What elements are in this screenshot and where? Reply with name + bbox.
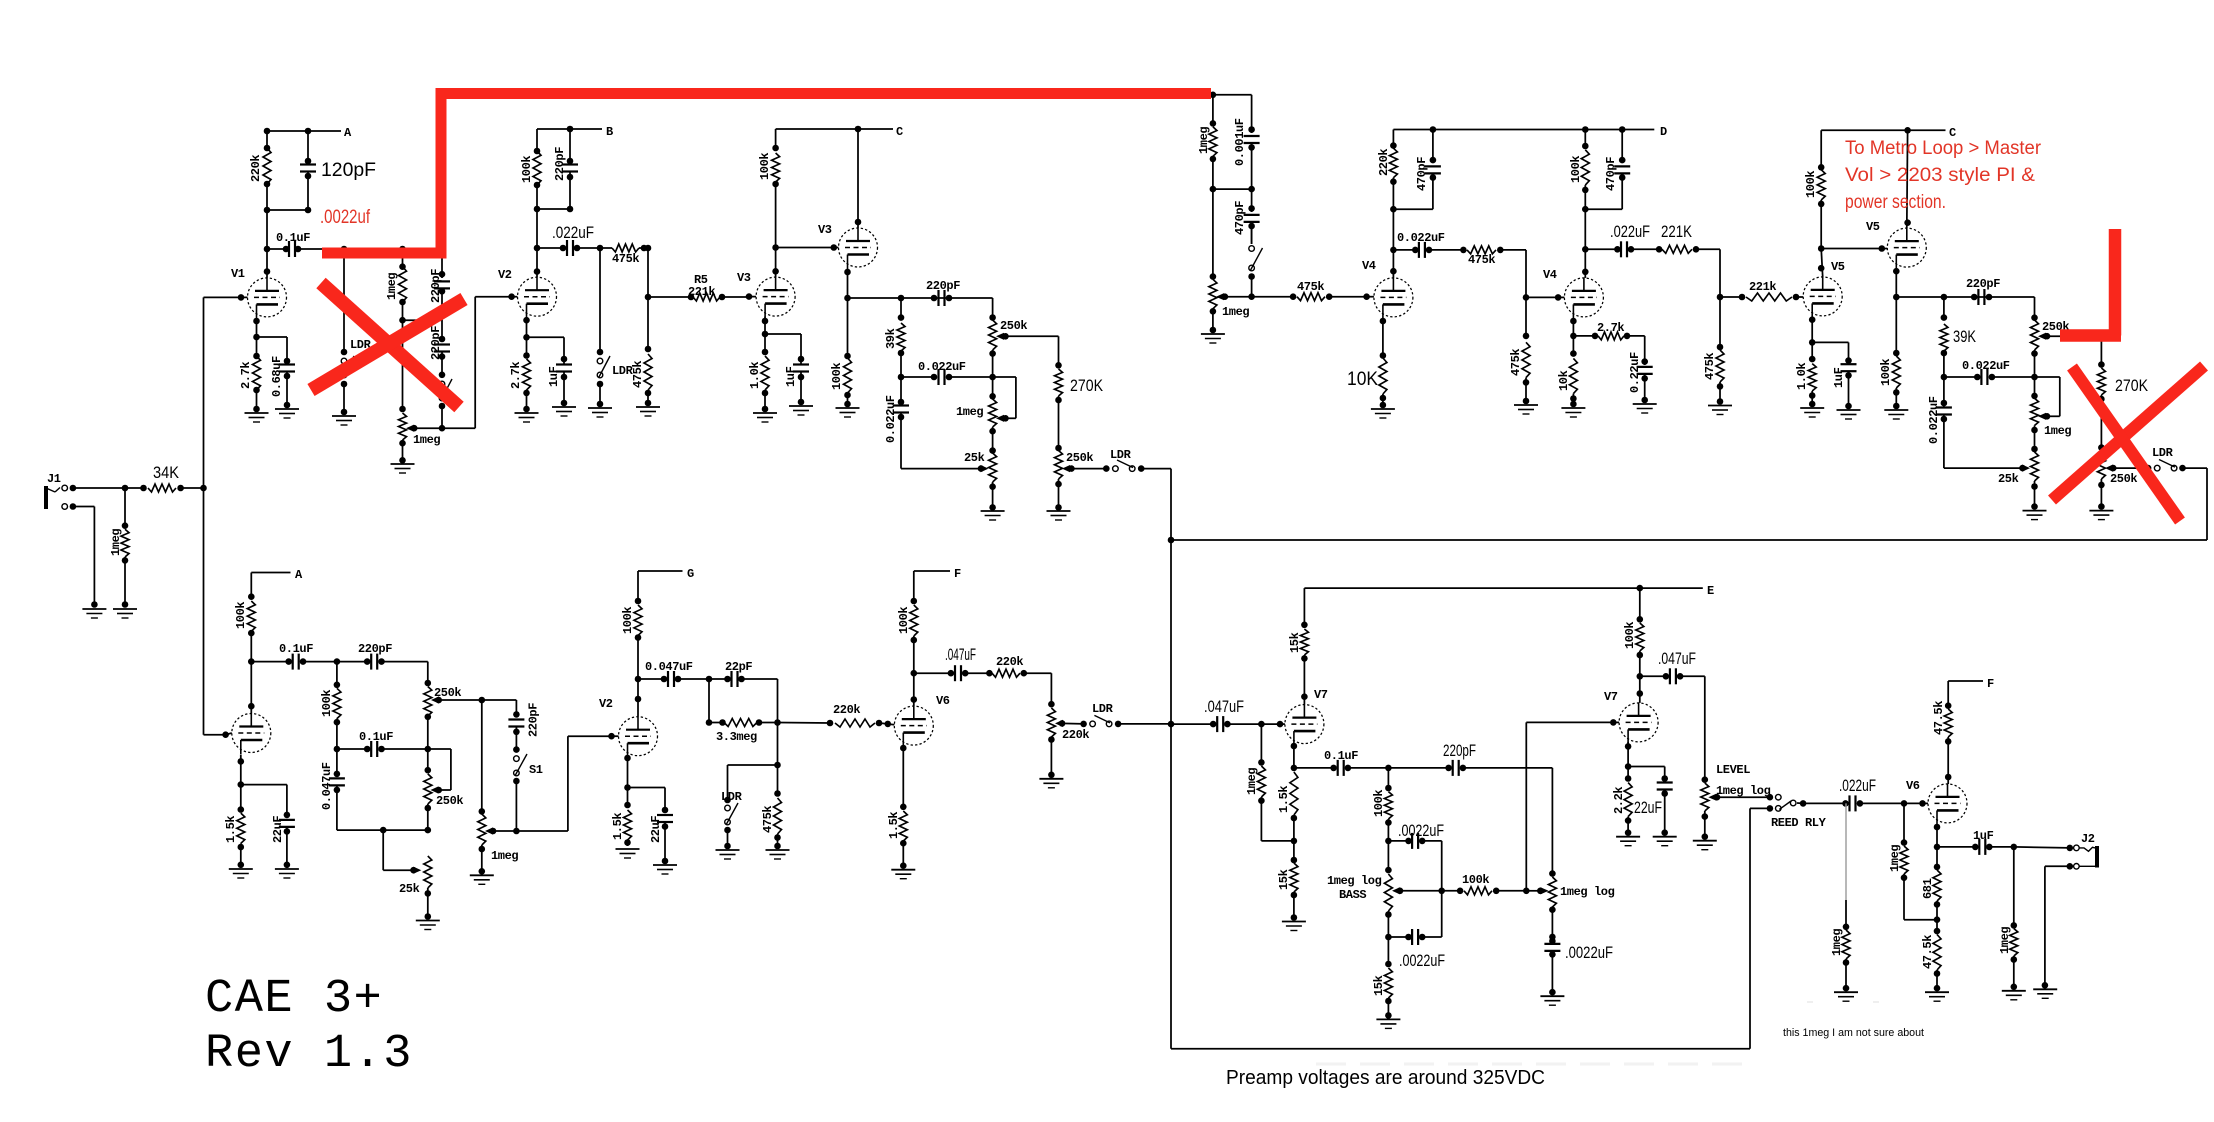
note this 1meg: [1783, 1027, 1924, 1039]
wire V4b cathode: [1570, 318, 1577, 340]
capacitor 220pF (lower A): [337, 642, 428, 670]
resistor 47.5k (V6b plate): [1932, 681, 1952, 784]
ground 0.22uF: [1633, 404, 1657, 413]
resistor 2.7k (V1 cathode): [239, 337, 261, 412]
capacitor 220pF (S1): [508, 703, 540, 753]
wire V2 plate lead: [534, 248, 541, 277]
wire B row: [534, 206, 574, 213]
svg-text:221k: 221k: [1749, 280, 1776, 294]
triode V5 (lower): [1803, 260, 1845, 317]
potentiometer 1meg log BASS: [1327, 841, 1403, 940]
svg-text:25k: 25k: [399, 882, 420, 896]
svg-text:1.0k: 1.0k: [748, 362, 762, 389]
ground 1.5k lower A: [229, 869, 253, 878]
svg-text:REED RLY: REED RLY: [1771, 816, 1827, 830]
svg-text:470pF: 470pF: [1233, 201, 1247, 235]
svg-text:1.5k: 1.5k: [887, 812, 901, 839]
resistor 39K (tone2): [1940, 297, 1977, 380]
wire 220k to V6 grid: [888, 723, 895, 726]
wire fx to 475k: [1225, 293, 1296, 300]
resistor 475k (V5 grid shunt): [1703, 297, 1724, 405]
svg-text:D: D: [1660, 125, 1667, 139]
capacitor 0.047uF (G out): [638, 660, 712, 687]
resistor 220k (to V6L): [778, 703, 892, 727]
resistor 10K (V4a cathode): [1347, 358, 1387, 408]
ground V7 cathode: [1282, 922, 1306, 931]
resistor 1.5k (V6L cathode): [887, 811, 907, 869]
svg-text:100k: 100k: [234, 602, 248, 629]
junction dots node A: [264, 128, 312, 135]
potentiometer 250k (tone1 upper): [989, 319, 1028, 380]
ground V6b cathode: [1925, 992, 1949, 1001]
ground 10K: [1371, 409, 1395, 418]
potentiometer 25k (tone2): [1998, 452, 2039, 510]
wire bass wiper: [1400, 890, 1442, 892]
capacitor .0022uF (treble): [1544, 938, 1613, 996]
svg-text:10K: 10K: [1347, 369, 1378, 390]
svg-text:0.022uF: 0.022uF: [1927, 396, 1941, 444]
red label .0022uf: [320, 207, 371, 228]
svg-text:J2: J2: [2081, 832, 2095, 846]
resistor 475k (G shunt): [761, 765, 782, 849]
wire 0.047 junction down: [706, 679, 713, 726]
resistor 220k (F series): [992, 655, 1051, 677]
svg-text:V5: V5: [1831, 260, 1845, 274]
wire V6L plate: [911, 673, 918, 706]
svg-text:V3: V3: [737, 271, 751, 285]
triode V2: [498, 268, 557, 318]
svg-text:0.1uF: 0.1uF: [276, 231, 310, 245]
wire lower tube plate: [248, 662, 255, 714]
svg-text:1.5k: 1.5k: [1277, 786, 1291, 813]
resistor 100k (V3 follower): [830, 298, 852, 407]
svg-text:475k: 475k: [1703, 353, 1717, 380]
capacitor 0.022uF (tone2 lower): [1927, 377, 1952, 468]
svg-text:15k: 15k: [1288, 632, 1302, 653]
svg-text:47.5k: 47.5k: [1921, 935, 1935, 969]
resistor 270K (tone2): [2097, 368, 2148, 448]
wire V4b plate: [1582, 246, 1589, 278]
svg-text:.0022uF: .0022uF: [1398, 821, 1444, 840]
ground bass: [1376, 1019, 1400, 1028]
wire to 250k pot top: [989, 298, 996, 321]
capacitor 22uF (V2L bypass): [628, 788, 674, 865]
potentiometer 1meg (lower): [478, 700, 519, 875]
ground 25k pot: [981, 511, 1005, 520]
svg-text:1meg log: 1meg log: [1560, 885, 1615, 899]
ground J1 sleeve: [82, 609, 106, 618]
ground 25k tone2: [2023, 511, 2047, 520]
LDR switch (stage B): [597, 248, 634, 407]
wire 22pF corner down: [774, 679, 781, 768]
svg-text:0.68uF: 0.68uF: [270, 356, 284, 397]
svg-text:LDR: LDR: [721, 790, 743, 804]
wire J2 sleeve: [2042, 863, 2074, 989]
svg-text:22uF: 22uF: [271, 816, 285, 843]
svg-text:250k: 250k: [1000, 319, 1027, 333]
wire down to V4b grid: [1523, 250, 1565, 301]
svg-text:.022uF: .022uF: [1839, 776, 1876, 795]
ground treble cap: [1540, 996, 1564, 1005]
resistor 1.5k (lower A cathode): [224, 785, 245, 869]
wire horizontal bus y540: [1171, 539, 2207, 541]
ground 2.2k: [1616, 837, 1640, 846]
LDR switch (stage A): [341, 249, 372, 415]
resistor 475k (shunt): [631, 354, 652, 406]
svg-text:220k: 220k: [1062, 728, 1089, 742]
wire lower bus row: [337, 827, 428, 834]
ground 22uF V7b: [1653, 837, 1677, 846]
svg-text:0.1uF: 0.1uF: [279, 642, 313, 656]
wire V7b cathode: [1625, 742, 1632, 770]
wire V1 grid: [204, 294, 248, 301]
potentiometer 25k (tone1): [964, 451, 997, 511]
resistor 2.7k (V4b bias): [1573, 321, 1644, 340]
switch under 220pF: [439, 379, 452, 428]
wire V4a cathode: [1380, 318, 1387, 359]
svg-text:1meg log: 1meg log: [1716, 784, 1771, 798]
svg-text:221K: 221K: [1661, 222, 1693, 241]
svg-text:1meg log: 1meg log: [1327, 874, 1382, 888]
capacitor 0.022uF (V4a out): [1393, 231, 1466, 258]
resistor 1meg (V6b grid leak): [1888, 803, 1937, 919]
capacitor 0.022uF (tone1 mid): [901, 360, 993, 385]
wire V3 upper grid: [776, 244, 839, 251]
svg-text:To Metro Loop > Master: To Metro Loop > Master: [1845, 138, 2042, 159]
potentiometer 250k (tone2 lower): [2097, 444, 2137, 510]
svg-text:220pF: 220pF: [429, 269, 443, 303]
resistor 100k (lower A plate): [234, 573, 255, 665]
wire .047 to LEVEL pot: [1702, 676, 1709, 783]
svg-text:F: F: [1987, 677, 1994, 691]
ground 1uF V2: [552, 407, 576, 416]
capacitor 470pF (fx): [1233, 189, 1260, 244]
svg-text:Preamp voltages are around 325: Preamp voltages are around 325VDC: [1226, 1066, 1545, 1089]
svg-text:1meg: 1meg: [413, 433, 440, 447]
wire right bus riser: [2179, 465, 2207, 540]
svg-text:LEVEL: LEVEL: [1716, 763, 1750, 777]
svg-text:22uF: 22uF: [649, 816, 663, 843]
potentiometer 250k (lower lower): [424, 749, 464, 833]
wire LEVEL wiper: [1717, 794, 1773, 801]
svg-text:LDR: LDR: [612, 364, 634, 378]
resistor 220k (V1 plate load): [249, 131, 271, 210]
wire down to R5 row: [645, 245, 652, 353]
svg-text:100k: 100k: [1879, 359, 1893, 386]
resistor 100k (F plate load): [897, 571, 918, 677]
wire V2 plate node: [534, 209, 541, 251]
resistor 15k (V7 plate): [1288, 588, 1308, 705]
capacitor 0.22uF: [1628, 336, 1653, 403]
svg-text:34K: 34K: [153, 463, 180, 482]
svg-text:.047uF: .047uF: [1658, 649, 1696, 668]
svg-text:.022uF: .022uF: [552, 223, 594, 242]
capacitor .047uF (V7b out): [1640, 649, 1705, 684]
svg-text:.0022uf: .0022uf: [320, 207, 371, 228]
svg-text:1meg: 1meg: [1197, 127, 1211, 154]
wire LDR-G top row: [728, 764, 778, 766]
potentiometer 25k (lower): [399, 856, 432, 920]
resistor 100k (V3 plate load): [758, 129, 780, 248]
resistor 475k (V4b grid shunt): [1509, 297, 1530, 404]
capacitor 22uF (lower A bypass): [241, 785, 295, 869]
wire cap to 25k wiper: [901, 465, 989, 472]
svg-text:E: E: [1707, 584, 1714, 598]
svg-text:this 1meg I am not sure about: this 1meg I am not sure about: [1783, 1027, 1924, 1039]
svg-text:475k: 475k: [631, 361, 645, 388]
svg-text:250k: 250k: [2110, 472, 2137, 486]
wire V1 plate: [264, 249, 271, 278]
capacitor 470pF (V4a): [1393, 130, 1441, 210]
wire V2 grid: [512, 296, 518, 298]
svg-text:100k: 100k: [520, 156, 534, 183]
wire 250k wiper to 270K: [1006, 336, 1062, 368]
capacitor 0.1uF (lower A out): [251, 642, 340, 670]
svg-text:0.047uF: 0.047uF: [320, 762, 334, 810]
wire coupling bus under red: [304, 246, 442, 253]
svg-text:100k: 100k: [621, 607, 635, 634]
resistor R5 221k: [688, 273, 749, 301]
wire LDR out to vertical bus: [1141, 469, 1174, 1049]
capacitor 220pF (lower): [429, 326, 450, 378]
svg-text:221k: 221k: [688, 285, 715, 299]
wire V2L cathode: [624, 755, 631, 791]
wire V2L plate: [635, 679, 642, 717]
svg-text:475k: 475k: [1509, 349, 1523, 376]
capacitor .0022uF (bass lower): [1388, 929, 1445, 970]
ground LDR B: [588, 408, 612, 417]
wire V4a plate: [1390, 247, 1397, 278]
resistor 1.5k (V7 cathode): [1277, 772, 1298, 844]
svg-text:0.022uF: 0.022uF: [1397, 231, 1445, 245]
svg-text:270K: 270K: [1070, 376, 1104, 395]
ground reed 1meg: [1834, 992, 1858, 1001]
wire to 25k wiper lower: [383, 830, 421, 874]
resistor 47.5k (V6b lower): [1921, 920, 1941, 992]
ground 1uF V3: [789, 406, 813, 415]
svg-text:1meg: 1meg: [385, 273, 399, 300]
wire V3 lower cathode: [762, 317, 769, 338]
potentiometer 220k (master): [1047, 708, 1089, 778]
resistor 1meg (slope): [385, 249, 407, 324]
svg-text:1uF: 1uF: [1832, 367, 1846, 388]
wire grid trunk: [204, 297, 229, 738]
svg-text:220pF: 220pF: [358, 642, 392, 656]
wire 1meg to caps: [403, 319, 443, 321]
wiper loop 1meg pot2: [2035, 377, 2060, 420]
svg-text:1meg: 1meg: [1245, 768, 1259, 795]
svg-text:V4: V4: [1543, 268, 1557, 282]
wire V5a to V5b grid: [1821, 245, 1887, 252]
node A wire (top): [267, 126, 352, 140]
ground fx pot: [1201, 334, 1225, 343]
capacitor 1uF (V2 bypass): [527, 337, 573, 406]
resistor 34K (input): [125, 463, 207, 492]
loop bass caps: [1438, 841, 1445, 937]
ground J2 sleeve: [2033, 989, 2057, 998]
capacitor 220pF (tone2): [1966, 277, 2000, 305]
capacitor .022uF (reed): [1839, 776, 1907, 811]
capacitor .047uF (F out): [914, 645, 993, 681]
svg-text:475k: 475k: [1297, 280, 1324, 294]
svg-text:1meg: 1meg: [1998, 927, 2012, 954]
wire red-line node: [1210, 92, 1252, 99]
node F wire (V6b): [1948, 677, 1994, 691]
wire V5b plate: [1904, 130, 1911, 228]
svg-text:250k: 250k: [434, 686, 461, 700]
svg-text:V5: V5: [1866, 220, 1880, 234]
svg-text:15k: 15k: [1277, 869, 1291, 890]
capacitor 220pF (upper): [429, 249, 450, 342]
svg-text:220pF: 220pF: [553, 147, 567, 181]
capacitor .047uF (to V7): [1171, 697, 1265, 732]
svg-text:100k: 100k: [320, 690, 334, 717]
svg-text:V4: V4: [1362, 259, 1376, 273]
node G wire: [638, 567, 694, 581]
triode V3 (lower): [737, 271, 795, 318]
potentiometer 250k (tone1 lower): [1055, 445, 1094, 511]
potentiometer 1meg (fx level): [1209, 273, 1250, 333]
wire V6b cathode: [1934, 824, 1941, 851]
capacitor 22pF: [709, 660, 778, 687]
ground 250k tone2: [2089, 511, 2113, 520]
ground 1meg pot: [391, 464, 415, 473]
wire 1meg/0.001 row: [1210, 186, 1255, 193]
triode V4 (first): [1362, 259, 1413, 318]
svg-text:2.7k: 2.7k: [509, 362, 523, 389]
svg-text:270K: 270K: [2115, 376, 2149, 395]
J1 tip contact: [62, 485, 128, 492]
potentiometer 250k (lower upper): [424, 662, 462, 753]
svg-text:100k: 100k: [1569, 156, 1583, 183]
svg-text:15k: 15k: [1372, 975, 1386, 996]
LDR switch (tone2 out): [2113, 446, 2177, 471]
jack J1: [46, 472, 61, 509]
capacitor 220pF (V2 plate): [553, 129, 578, 209]
svg-text:220pF: 220pF: [429, 326, 443, 360]
svg-text:J1: J1: [47, 472, 61, 486]
svg-text:681: 681: [1921, 878, 1935, 899]
node C wire (first): [776, 125, 903, 139]
wire wiper row to V2 lower grid: [493, 733, 615, 831]
resistor 1meg (V7 grid leak): [1245, 724, 1294, 841]
switch (fx): [1248, 228, 1262, 297]
svg-text:CAE 3+: CAE 3+: [205, 973, 383, 1026]
svg-text:0.047uF: 0.047uF: [645, 660, 693, 674]
resistor 100k (bass top): [1372, 768, 1392, 844]
ground output 1meg: [2002, 991, 2026, 1000]
resistor 1.0k (V3 cathode): [748, 334, 769, 412]
wire V7 cathode: [1291, 743, 1298, 772]
svg-text:3.3meg: 3.3meg: [716, 730, 757, 744]
svg-text:B: B: [606, 125, 613, 139]
wire cap2 to 25k wiper: [1944, 465, 2030, 472]
node A wire (lower): [251, 568, 303, 582]
svg-text:V2: V2: [498, 268, 512, 282]
capacitor 220pF (tone1): [926, 279, 960, 306]
resistor 475k (V4 grid): [1297, 280, 1370, 301]
ground 1.5k V6L: [891, 870, 915, 879]
wire to V4 grid: [1367, 296, 1374, 298]
resistor 100k (lower mid): [320, 662, 341, 753]
wire lower tube cathode: [238, 755, 245, 788]
svg-text:2.2k: 2.2k: [1612, 787, 1626, 814]
svg-text:220pF: 220pF: [926, 279, 960, 293]
svg-text:0.022uF: 0.022uF: [918, 360, 966, 374]
ground 0.68uF: [275, 409, 299, 418]
wire V6L cathode: [900, 745, 907, 810]
svg-text:1uF: 1uF: [547, 366, 561, 387]
svg-text:220k: 220k: [249, 155, 263, 182]
svg-text:0.22uF: 0.22uF: [1628, 352, 1642, 393]
wire V3 lower grid: [746, 293, 756, 300]
svg-text:.022uF: .022uF: [1610, 222, 1650, 241]
wire V2 cathode: [523, 317, 530, 341]
note preamp voltages: [1226, 1066, 1545, 1089]
resistor 100k (mid bridge): [1442, 873, 1530, 895]
svg-text:LDR: LDR: [1110, 448, 1132, 462]
svg-text:power section.: power section.: [1845, 192, 1946, 213]
svg-text:100k: 100k: [1804, 171, 1818, 198]
capacitor .022uF (V4b out): [1585, 222, 1662, 257]
capacitor 0.1uF (V7 out): [1294, 749, 1392, 776]
resistor 1meg (reed shunt): [1830, 929, 1850, 992]
switch S1: [513, 754, 543, 834]
svg-text:100k: 100k: [1623, 622, 1637, 649]
wire follower2 output row: [1896, 294, 2034, 301]
svg-text:0.1uF: 0.1uF: [359, 730, 393, 744]
triode V6 (lower half): [894, 694, 950, 747]
wire 250k2 wiper to 270K: [2047, 336, 2105, 368]
triode V1: [231, 267, 287, 318]
svg-text:V6: V6: [1906, 779, 1920, 793]
resistor 1meg (output shunt): [1998, 847, 2018, 990]
wire to V1 plate node: [264, 210, 271, 252]
resistor 100k (V5b follower): [1879, 297, 1900, 409]
wire to V7 grid: [1261, 721, 1285, 728]
resistor 100k (V2 plate load): [520, 129, 541, 209]
wire to 250k pot2 top: [2031, 297, 2038, 321]
wire V1 cathode: [253, 318, 260, 341]
capacitor 22uF (V7b bypass): [1628, 767, 1673, 837]
junction dot after .022uF: [597, 245, 604, 252]
svg-text:.047uF: .047uF: [1204, 697, 1244, 716]
wiper bus lower: [439, 697, 520, 718]
wire 220k/120pF bottom row: [264, 207, 312, 214]
capacitor 1uF (V5a bypass): [1812, 342, 1856, 409]
wire to treble pot wiper: [1526, 887, 1548, 894]
capacitor 0.047uF (lower): [320, 749, 345, 830]
svg-text:.0022uF: .0022uF: [1565, 943, 1613, 962]
svg-text:0.022uF: 0.022uF: [884, 395, 898, 443]
wire V3 upper cathode: [844, 269, 851, 302]
resistor 681 (V6b cathode): [1921, 847, 1941, 923]
wire grey drop: [1843, 803, 1850, 930]
resistor 221K (interstage): [1661, 222, 1720, 253]
svg-text:1meg: 1meg: [2044, 424, 2071, 438]
capacitor 220pF (treble): [1388, 741, 1552, 776]
capacitor 0.68uF (V1 bypass): [257, 337, 296, 408]
resistor 475k (series): [600, 244, 648, 266]
red note metro loop: [1845, 138, 2042, 213]
svg-text:2.7k: 2.7k: [1597, 321, 1624, 335]
wire lower tube grid: [226, 733, 232, 735]
svg-text:Vol > 2203 style PI &: Vol > 2203 style PI &: [1845, 165, 2035, 186]
svg-text:LDR: LDR: [2152, 446, 2174, 460]
svg-text:1meg: 1meg: [1222, 305, 1249, 319]
svg-text:A: A: [344, 126, 352, 140]
wire cap to V6b grid: [1904, 800, 1928, 807]
